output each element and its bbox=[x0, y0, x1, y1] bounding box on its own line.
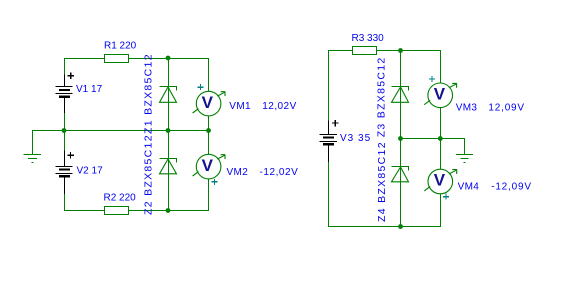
wire: right mid rail bbox=[400, 138, 465, 140]
wire: left circuit top rail bbox=[64, 58, 209, 60]
resistor R1 body bbox=[105, 55, 129, 63]
battery V3 plus sign bbox=[332, 120, 339, 127]
svg-text:Z1 BZX85C12: Z1 BZX85C12 bbox=[143, 53, 155, 134]
svg-text:12,09V: 12,09V bbox=[488, 103, 525, 114]
wire: V2 top to mid rail bbox=[64, 131, 66, 151]
ground (left) bbox=[24, 155, 42, 163]
svg-text:V2 17: V2 17 bbox=[77, 166, 104, 177]
wire: right zener column bbox=[400, 51, 402, 227]
svg-text:V: V bbox=[434, 85, 446, 104]
wire: zener column left bbox=[168, 58, 170, 211]
node: top rail / zener column bbox=[166, 56, 171, 61]
svg-text:Z4 BZX85C12: Z4 BZX85C12 bbox=[376, 141, 388, 222]
node: right bottom rail / zener column bbox=[398, 224, 403, 229]
voltmeter VM2 bbox=[196, 154, 221, 179]
wire: V2 bottom to bottom rail bbox=[65, 194, 210, 211]
node: right mid rail / zener column bbox=[398, 136, 403, 141]
voltmeter VM1 bbox=[196, 91, 221, 116]
node: right top rail / zener column bbox=[398, 48, 403, 53]
battery V2 plus sign bbox=[67, 152, 74, 159]
wire: left circuit mid rail bbox=[32, 130, 209, 132]
resistor R3 body bbox=[353, 47, 377, 55]
wire: left vertical top segment to V1 bbox=[64, 58, 66, 75]
wire: VM4 column top bbox=[440, 139, 442, 170]
svg-text:V: V bbox=[434, 171, 446, 190]
voltmeter VM3 bbox=[428, 83, 453, 108]
svg-text:VM2: VM2 bbox=[227, 167, 249, 178]
battery V1 plus sign bbox=[68, 73, 75, 80]
svg-text:VM1: VM1 bbox=[229, 101, 251, 112]
VM2 plus sign (teal) bbox=[211, 179, 217, 185]
node: bottom rail / zener column bbox=[166, 208, 171, 213]
VM4 tick bbox=[424, 187, 430, 191]
wire: VM3 bottom to mid rail bbox=[440, 108, 442, 139]
zener diode Z4 bbox=[392, 167, 409, 182]
svg-text:V1 17: V1 17 bbox=[76, 84, 103, 95]
node: mid rail / VM column bbox=[206, 128, 211, 133]
wire: V1 bottom to mid rail bbox=[64, 113, 66, 131]
VM3 tick bbox=[424, 100, 430, 104]
svg-text:-12,09V: -12,09V bbox=[491, 182, 532, 193]
svg-text:VM3: VM3 bbox=[456, 103, 478, 114]
wire: VM3 column top bbox=[440, 51, 442, 84]
svg-text:VM4: VM4 bbox=[458, 182, 480, 193]
voltmeter VM4 bbox=[428, 169, 453, 194]
svg-text:Z3 BZX85C12: Z3 BZX85C12 bbox=[376, 56, 388, 137]
battery V2 bbox=[56, 150, 73, 193]
wire: V3 bottom to bottom rail bbox=[329, 162, 441, 226]
battery V3 bbox=[320, 121, 338, 163]
wire: ground drop right bbox=[464, 139, 466, 155]
svg-text:V3 35: V3 35 bbox=[340, 133, 371, 144]
svg-text:-12,02V: -12,02V bbox=[260, 167, 299, 178]
svg-text:R1 220: R1 220 bbox=[104, 41, 137, 52]
ground (right) bbox=[456, 155, 473, 163]
wire: VM1 column top bbox=[208, 58, 210, 91]
svg-text:V: V bbox=[202, 156, 214, 175]
resistor R2 body bbox=[105, 207, 129, 215]
VM4 plus sign (teal) bbox=[443, 194, 449, 200]
node: mid rail / zener column bbox=[166, 128, 171, 133]
zener diode Z1 bbox=[160, 87, 177, 103]
VM2 arrow bbox=[217, 155, 225, 159]
wire: VM2 bottom to bottom rail bbox=[208, 179, 210, 211]
VM1 plus sign (teal) bbox=[197, 84, 203, 90]
wire: VM4 bottom to bottom rail bbox=[440, 194, 442, 227]
svg-text:Z2 BZX85C12: Z2 BZX85C12 bbox=[143, 134, 155, 215]
VM3 plus sign (teal) bbox=[429, 76, 435, 82]
wire: ground drop left bbox=[32, 131, 34, 155]
wire: right circuit left vertical top bbox=[328, 51, 330, 121]
svg-text:12,02V: 12,02V bbox=[262, 101, 296, 112]
wire: VM1 bottom to mid rail bbox=[208, 116, 210, 131]
svg-text:V: V bbox=[202, 93, 214, 112]
VM4 arrow bbox=[449, 170, 457, 174]
VM2 tick bbox=[193, 172, 199, 176]
node: right mid rail / VM column bbox=[438, 136, 443, 141]
battery V1 bbox=[56, 75, 73, 114]
VM1 tick bbox=[193, 109, 199, 113]
wire: VM2 column top bbox=[208, 131, 210, 155]
zener diode Z2 bbox=[160, 159, 177, 174]
svg-text:R2 220: R2 220 bbox=[104, 193, 137, 204]
svg-text:R3 330: R3 330 bbox=[352, 33, 385, 44]
node: mid rail / battery column junction bbox=[62, 128, 67, 133]
zener diode Z3 bbox=[392, 87, 409, 103]
VM3 arrow bbox=[449, 83, 457, 87]
VM1 arrow bbox=[217, 92, 225, 96]
wire: right circuit top rail bbox=[328, 50, 441, 52]
